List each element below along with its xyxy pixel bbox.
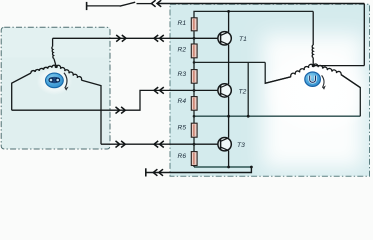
right box border <box>170 4 370 176</box>
resistor R1 <box>191 18 197 31</box>
page background <box>0 0 373 180</box>
transistor T3 <box>218 116 231 167</box>
right box white halo around motor <box>263 34 373 168</box>
sensor top winding (left motor, phase A coil) <box>52 38 56 66</box>
svg-text:T3: T3 <box>237 142 245 149</box>
resistor R5 <box>191 123 197 137</box>
junction dot T2 emitter <box>227 115 230 118</box>
left box white halo around rotor <box>36 67 72 95</box>
svg-text:T2: T2 <box>239 88 247 95</box>
wire: drop to left motor winding <box>265 62 291 83</box>
wire: terminal to switch <box>87 5 120 7</box>
rotor disc (sensor magnet) <box>46 73 64 88</box>
resistor R2 <box>191 44 197 58</box>
rotation arrow (sensor rotor) <box>64 73 69 91</box>
wire: riser to right motor winding <box>341 75 360 117</box>
phase C wire from sensor right winding <box>101 143 220 145</box>
resistor R3 <box>191 70 197 84</box>
wire: right-side drop to motor star centre <box>363 4 365 66</box>
svg-text:R6: R6 <box>178 153 187 160</box>
junction dot link x248 <box>247 115 250 118</box>
left divider rail with resistors <box>193 31 195 167</box>
resistor R6 <box>191 152 197 166</box>
bottom rail (emitters) <box>194 166 251 168</box>
switch SA blade <box>120 2 136 6</box>
rotation arrow (motor rotor) <box>322 75 326 89</box>
motor right winding <box>313 64 360 88</box>
connector arrows bottom supply <box>153 169 163 176</box>
star centre node (motor) <box>312 64 315 67</box>
wire: inner top rail R1/T1-collector to motor phase 1 <box>194 11 313 17</box>
svg-text:R5: R5 <box>178 124 187 131</box>
connector arrows phase A (out of left box) <box>116 35 126 42</box>
phase B wire lower run from sensor left winding <box>12 90 220 110</box>
motor top winding (phase 1 coil) <box>312 11 313 65</box>
stage wire T2e/T3c node <box>194 115 360 117</box>
junction dot R1/R2 <box>193 37 196 40</box>
svg-text:R2: R2 <box>178 47 187 54</box>
svg-text:R4: R4 <box>178 98 187 105</box>
vertical link wire x248 <box>247 62 249 116</box>
left box border <box>1 27 110 149</box>
connector arrows phase C (into middle box) <box>154 141 164 148</box>
stage wire T1e/T2c node <box>194 61 265 63</box>
connector arrows phase B (out of left box) <box>116 107 126 114</box>
resistor R4 <box>191 97 197 111</box>
rotor disc (motor magnet) <box>305 72 321 86</box>
terminal bar bottom <box>145 168 147 176</box>
junction dot R5/R6 <box>193 143 196 146</box>
junction dot T1 collector on rail <box>227 10 230 13</box>
transistor T2 <box>218 62 231 116</box>
right box (electronic commutator + motor) fill <box>170 4 370 176</box>
junction dot bottom corner <box>250 166 253 169</box>
wire: top supply rail along box top <box>157 3 364 5</box>
star centre node (sensor) <box>55 65 58 68</box>
phase A wire from sensor top winding to T1 base <box>53 37 220 39</box>
connector arrows phase A (into middle box) <box>154 35 164 42</box>
transistor T1 <box>218 11 231 62</box>
terminal bar top-left <box>86 2 88 10</box>
sensor right winding <box>56 65 101 144</box>
wire: bottom supply return <box>146 167 252 173</box>
junction dot R3/R4 <box>193 89 196 92</box>
motor left winding <box>265 64 313 83</box>
svg-text:T1: T1 <box>239 36 247 43</box>
wire: horizontal into star centre <box>313 65 364 67</box>
connector arrows phase B (into middle box) <box>154 87 164 94</box>
connector arrows phase C (out of left box) <box>116 141 126 148</box>
svg-text:R3: R3 <box>178 71 187 78</box>
connector arrows (top supply, into box) <box>151 0 161 7</box>
wire: switch to connector <box>137 3 153 5</box>
junction dot T3 emitter <box>227 166 230 169</box>
svg-text:R1: R1 <box>178 20 187 27</box>
sensor left winding <box>12 65 57 110</box>
left box (rotor position sensor unit) fill <box>1 27 110 149</box>
